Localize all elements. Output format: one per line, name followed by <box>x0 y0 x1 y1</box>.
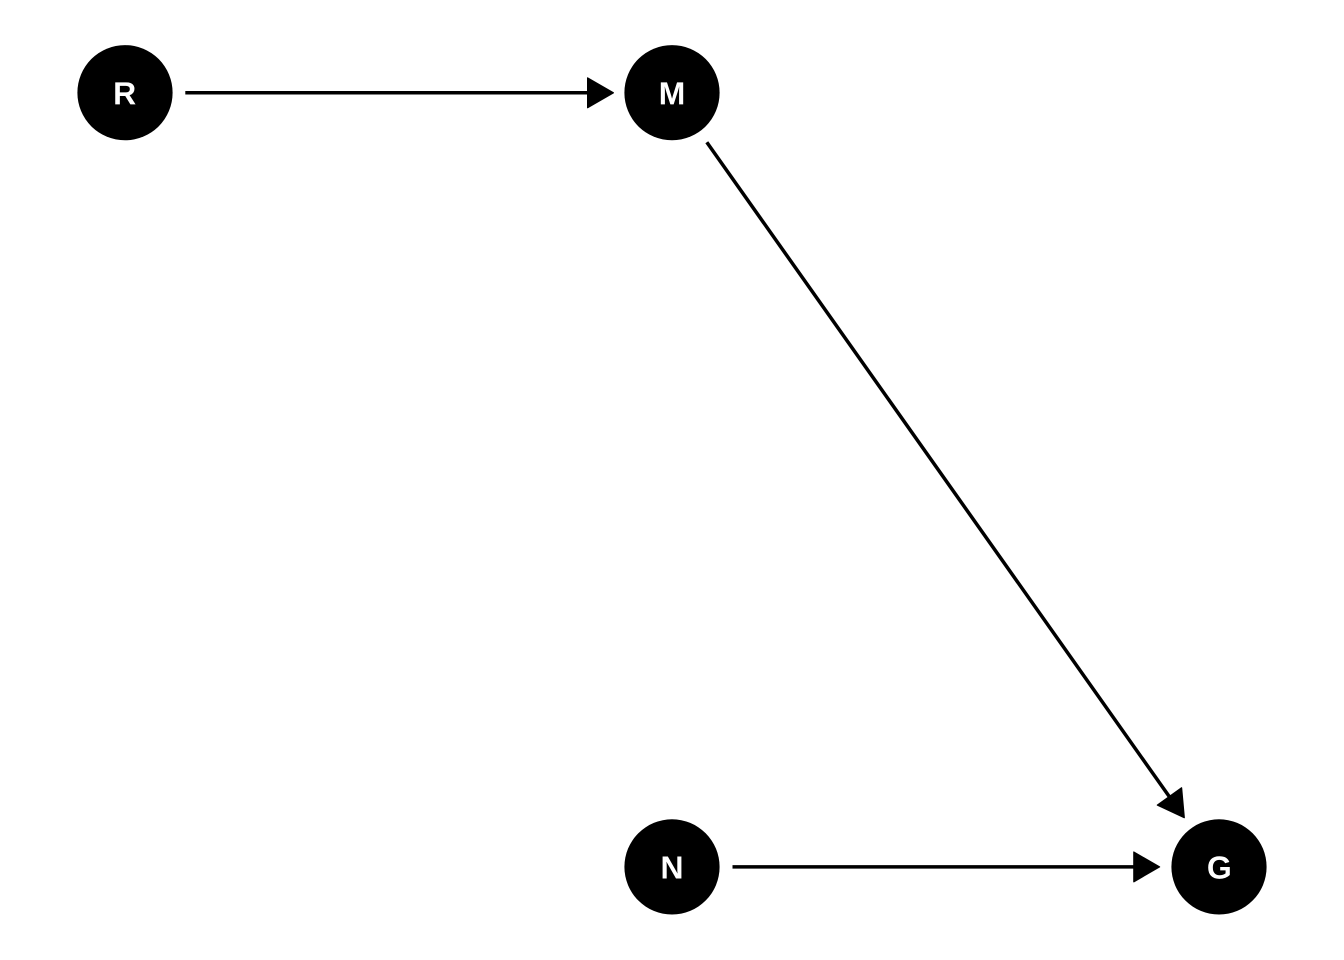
arrowhead R to M <box>588 78 614 108</box>
node M <box>624 45 719 140</box>
label R <box>115 82 135 104</box>
label M <box>661 82 683 104</box>
node G <box>1171 819 1266 914</box>
wire M to G <box>707 142 1170 797</box>
label G <box>1208 856 1230 879</box>
node R <box>77 45 172 140</box>
arrowhead N to G <box>1134 852 1160 882</box>
label N <box>663 857 682 879</box>
node N <box>624 819 719 914</box>
arrowhead M to G <box>1157 788 1184 818</box>
wire N to G <box>733 865 1135 869</box>
wire R to M <box>185 91 588 95</box>
